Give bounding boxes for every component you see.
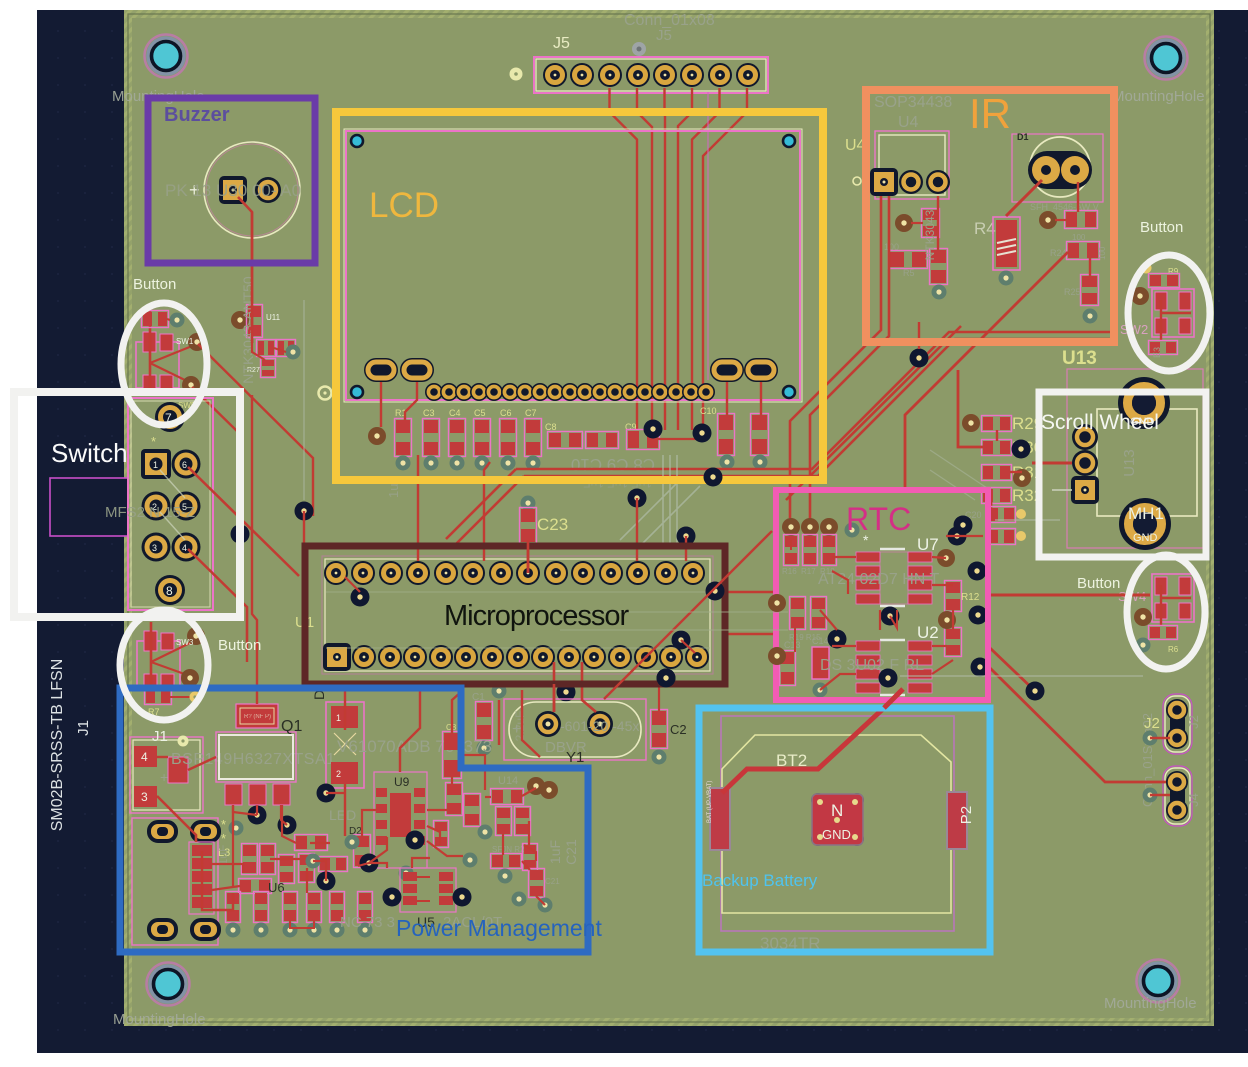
pad U1 top pin 6 <box>461 561 485 585</box>
wire mid connects <box>270 858 300 860</box>
capacitor bottom row x=337 <box>330 892 345 923</box>
wire U4 pin3 down <box>937 196 939 250</box>
via in micro left <box>351 588 370 607</box>
wires power management <box>251 212 253 343</box>
via on micro right border <box>706 582 725 601</box>
svg-text:SW1: SW1 <box>176 337 194 346</box>
oval pad <box>192 822 219 841</box>
svg-text:Power Management: Power Management <box>396 915 602 941</box>
svg-text:2: 2 <box>336 769 341 779</box>
pad MH2 <box>1118 377 1170 429</box>
hatch lines switch <box>160 470 185 540</box>
svg-text:C6: C6 <box>500 408 512 418</box>
svg-text:J5: J5 <box>656 27 672 44</box>
svg-text:R12: R12 <box>961 592 980 603</box>
wire over micro border (crystal) <box>553 684 556 712</box>
pad brown on RTC border b <box>768 647 786 665</box>
wire U11 down <box>252 343 265 360</box>
vias U5 <box>383 888 402 907</box>
svg-text:LCD: LCD <box>369 186 439 225</box>
vias below micro <box>492 684 507 699</box>
svg-text:IR: IR <box>969 90 1011 137</box>
pad J2 pin2 <box>1166 727 1188 749</box>
svg-text:J5: J5 <box>553 35 570 52</box>
svg-text:DS 3U02 F RL: DS 3U02 F RL <box>820 657 924 674</box>
pad teal RTC <box>845 523 860 538</box>
pad switch pin 2 <box>142 492 171 521</box>
svg-text:C2: C2 <box>670 722 687 737</box>
wire C8p up <box>452 692 461 733</box>
wire 304-511 links <box>303 511 305 543</box>
via C2 <box>652 750 667 765</box>
resistor R31 <box>982 465 1012 481</box>
pad U1 top pin 4 <box>406 561 430 585</box>
pad brown under U4 <box>895 214 913 232</box>
pad U4 pin3 <box>926 170 950 194</box>
IC U9 <box>374 772 427 868</box>
wire U9 right to parts <box>427 841 463 856</box>
pad U1 bottom pin 5 <box>429 645 453 669</box>
switch SW1 outline <box>136 342 179 388</box>
svg-text:N: N <box>831 801 843 820</box>
resistor R6 <box>1149 626 1178 640</box>
connector J5 outline <box>536 59 766 91</box>
pad J4 pin2 <box>1166 799 1188 821</box>
pad U4 pin2 <box>899 170 923 194</box>
pad U1 bottom pin 6 <box>454 645 478 669</box>
svg-text:J4: J4 <box>1186 793 1201 807</box>
resistor R30 <box>982 440 1012 456</box>
via black near C10 <box>644 420 663 439</box>
wire (magenta net line) <box>707 92 709 380</box>
annotation Buzzer box <box>148 98 315 263</box>
wire IR diag bundle 1 <box>516 332 1114 469</box>
svg-text:4: 4 <box>141 750 148 764</box>
mounting hole MH3 top-left <box>145 35 188 78</box>
wire switch pin6 diagonal <box>188 467 299 576</box>
svg-text:U9: U9 <box>394 775 410 789</box>
svg-text:C4: C4 <box>449 408 461 418</box>
microprocessor U1 inner outline <box>322 556 713 674</box>
svg-text:Button: Button <box>1077 575 1120 592</box>
wire brown-R11 <box>1055 219 1066 221</box>
pale inner traces <box>620 455 700 546</box>
via below C6 <box>501 456 516 471</box>
svg-text:C5: C5 <box>474 408 486 418</box>
capacitor C19 <box>987 529 1016 545</box>
svg-text:NTK3043-ANT50: NTK3043-ANT50 <box>240 276 256 384</box>
pad Y1 pin1 <box>535 711 561 737</box>
pad brown right <box>1039 211 1057 229</box>
via teal under R4 <box>999 271 1014 286</box>
svg-text:U2: U2 <box>917 623 939 642</box>
wire oval right2 down <box>760 382 762 415</box>
svg-text:V61070ADB 767373: V61070ADB 767373 <box>337 737 492 756</box>
wire RTC to J4 via <box>990 648 1035 691</box>
wire Q1 leg right down <box>282 805 296 843</box>
pad brown on RTC border a <box>768 594 786 612</box>
vias black RTC <box>954 516 973 535</box>
svg-text:J1: J1 <box>75 720 92 736</box>
wire R32 vertical <box>990 502 993 518</box>
pad LCD pin 4 <box>470 383 488 401</box>
capacitor bottom row x=233 <box>226 892 241 923</box>
pad switch pin 7 <box>155 402 185 432</box>
svg-text:C23: C23 <box>537 515 568 534</box>
svg-text:U7: U7 <box>917 535 939 554</box>
wire J5 breakout <box>703 88 747 430</box>
wire via up <box>918 322 920 349</box>
via right mid <box>672 631 691 650</box>
wire Q1 legs <box>233 805 257 815</box>
pad J5 pin 7 <box>708 63 732 87</box>
resistor R8 <box>1149 341 1178 355</box>
wire bottom row link <box>290 921 314 928</box>
svg-text:R9: R9 <box>1168 267 1179 276</box>
resistor cluster right of U9 <box>446 783 463 816</box>
inductor L3 <box>189 842 214 914</box>
wires RTC internal <box>790 540 792 550</box>
oval pad LCD right2 <box>744 358 778 382</box>
pad LCD pin 3 <box>455 383 473 401</box>
svg-text:8: 8 <box>166 584 173 598</box>
wire R29-R30 <box>996 430 998 441</box>
pad LCD pin 9 <box>546 383 564 401</box>
svg-text:100: 100 <box>1072 233 1086 242</box>
svg-text:1uF: 1uF <box>216 845 230 866</box>
wire IR diag bundle 3 <box>786 326 961 500</box>
pad brown SW1 a <box>188 333 206 351</box>
pad switch pin 3 <box>142 533 171 562</box>
annotation Scroll Wheel box <box>1039 392 1206 557</box>
pad P2 <box>947 792 967 849</box>
via teal under right column 1 <box>720 455 735 470</box>
svg-text:R25: R25 <box>1064 287 1081 297</box>
pad J5 pin 2 <box>570 63 594 87</box>
pads brown RTC right <box>937 549 955 567</box>
LCD corner hole <box>351 135 363 147</box>
svg-text:E3: E3 <box>1152 347 1162 358</box>
wire J5 breakout <box>610 88 638 430</box>
oval pad LCD left2 <box>400 358 434 382</box>
IC U2 <box>856 640 932 695</box>
wire J5 breakout <box>663 88 666 430</box>
svg-text:R16: R16 <box>782 567 797 576</box>
pad LCD pin 11 <box>576 383 594 401</box>
pad LCD pin 15 <box>636 383 654 401</box>
svg-text:U13: U13 <box>1121 449 1138 477</box>
wire J5 breakout <box>692 88 720 430</box>
LCD corner hole <box>783 386 795 398</box>
pad U1 top pin 10 <box>571 561 595 585</box>
svg-text:R6: R6 <box>1168 645 1179 654</box>
pad U1 top pin 8 <box>516 561 540 585</box>
wires micro to RTC <box>723 591 776 593</box>
pad U4 pin1 (square) <box>870 168 898 196</box>
pad U1 top pin 9 <box>544 561 568 585</box>
crystal Y1 outline <box>504 699 646 760</box>
svg-text:C3: C3 <box>423 408 435 418</box>
oval pad <box>149 822 176 841</box>
pad MH1 <box>1119 498 1171 550</box>
annotation LCD box <box>336 112 823 480</box>
via black left C20 <box>948 527 967 546</box>
svg-text:2.2uF: 2.2uF <box>513 711 527 742</box>
resistors R16 R17 R18 <box>784 535 799 566</box>
pad U1 top pin 1 <box>324 561 348 585</box>
via teal under right column 2 <box>753 455 768 470</box>
wire via 637 down <box>636 498 638 561</box>
pad J5 pin 3 <box>598 63 622 87</box>
svg-text:U13: U13 <box>1062 348 1097 369</box>
IC U10 <box>464 794 481 827</box>
wire U14 right drop <box>528 821 530 845</box>
capacitor C21 <box>529 869 545 898</box>
pad brown SW3 b <box>181 669 199 687</box>
wire U11 to via <box>274 348 286 352</box>
capacitor C23 <box>521 496 536 511</box>
svg-text:MountingHole: MountingHole <box>113 1011 206 1028</box>
resistor R29 <box>982 416 1012 432</box>
pad P1 <box>710 788 730 850</box>
svg-text:U11: U11 <box>266 313 281 322</box>
svg-text:Button: Button <box>133 276 176 293</box>
battery center pad BT2 <box>811 793 864 846</box>
wire cluster link <box>310 842 330 844</box>
svg-text:PK 13 U30 00- A0: PK 13 U30 00- A0 <box>165 181 301 200</box>
IR receiver U4 outline <box>875 131 949 199</box>
wire RTC to SW4 <box>990 594 1150 597</box>
pad U1 top pin 3 <box>379 561 403 585</box>
pale inner traces micro <box>326 592 710 648</box>
pads D1 <box>1028 151 1092 189</box>
svg-text:GND: GND <box>822 827 851 842</box>
resistor R12 <box>945 581 962 612</box>
via teal J2 <box>1143 731 1158 746</box>
pad LCD pin 2 <box>440 383 458 401</box>
svg-text:Button: Button <box>218 637 261 654</box>
wire R31 right to scroll <box>1010 471 1022 473</box>
wire power vertical left <box>232 806 234 886</box>
via below C7 <box>526 456 541 471</box>
wire pad2-via <box>345 577 360 592</box>
svg-text:*: * <box>151 434 156 449</box>
battery trace over RTC border <box>884 689 903 708</box>
wire via 686 down <box>685 536 687 561</box>
wire long from U9 up <box>400 690 420 772</box>
pad U1 bottom pin 3 <box>378 645 402 669</box>
wire SW1 bus <box>149 304 152 388</box>
via below R1 <box>396 456 411 471</box>
svg-text:Button: Button <box>1140 219 1183 236</box>
pad U1 bottom pin 10 <box>557 645 581 669</box>
pad LCD pin 10 <box>561 383 579 401</box>
fiducial pad near J5 <box>632 42 646 56</box>
pale wire U13 pin3 <box>1052 489 1072 491</box>
resistor R7 <box>145 690 172 705</box>
scroll wheel inner courtyard <box>1097 409 1197 516</box>
wire U4 pin1 down long <box>790 196 881 518</box>
svg-text:DBVR: DBVR <box>545 739 587 756</box>
svg-text:SW3: SW3 <box>176 638 194 647</box>
svg-text:C8: C8 <box>545 422 557 432</box>
annotation Button ellipse SW1 <box>121 303 207 425</box>
svg-text:C21: C21 <box>545 877 560 886</box>
pad J5 pin 1 <box>543 63 567 87</box>
pad U1 top pin 13 <box>654 561 678 585</box>
wire oval right1 down <box>726 382 728 415</box>
wire oval left2 down <box>405 382 417 420</box>
svg-text:1: 1 <box>336 713 341 723</box>
via on LCD border <box>704 468 723 487</box>
pad J5 pin 6 <box>680 63 704 87</box>
annotation IR box <box>866 90 1114 342</box>
via teal under R26 <box>932 285 947 300</box>
svg-text:MH1: MH1 <box>1128 504 1164 523</box>
pad U1 bottom pin 2 <box>352 645 376 669</box>
switch SW4 <box>1152 574 1194 622</box>
pad brown SW3 a <box>187 627 205 645</box>
svg-text:BAT (UP-VBAT): BAT (UP-VBAT) <box>707 781 713 823</box>
wire U9 left to D2 <box>362 810 376 836</box>
via black R30 <box>1012 440 1031 459</box>
annotation Microprocessor box <box>305 546 725 684</box>
mounting hole MH4 top-right <box>1145 37 1188 80</box>
battery BT2 courtyard khaki <box>722 735 951 913</box>
pad U1 bottom pin 9 <box>531 645 555 669</box>
svg-text:+: + <box>160 769 168 785</box>
via teal SW4 <box>1136 638 1151 653</box>
wire SW1 diagonal to LCD area <box>198 344 313 516</box>
svg-text:1: 1 <box>153 460 158 470</box>
svg-text:J1: J1 <box>152 728 168 745</box>
via over micro border <box>657 669 676 688</box>
battery BT2 courtyard pink <box>721 716 954 931</box>
svg-text:Buzzer: Buzzer <box>164 104 230 126</box>
center cluster parts <box>295 835 328 851</box>
pad khaki R7 <box>190 692 201 703</box>
scroll wheel U13 outline <box>1067 369 1203 548</box>
svg-text:C13: C13 <box>784 640 801 650</box>
pad brown SW4 <box>1134 608 1152 626</box>
oval pads battery holder <box>132 818 218 945</box>
svg-text:D1: D1 <box>1017 132 1029 142</box>
svg-text:6: 6 <box>182 460 187 470</box>
pad LCD pin 7 <box>516 383 534 401</box>
svg-text:C10: C10 <box>700 406 717 416</box>
wire long diagonal through micro corner <box>604 531 772 699</box>
wire mid vertical <box>306 868 308 893</box>
svg-text:Scroll Wheel: Scroll Wheel <box>1041 411 1159 434</box>
wire brown-R23 <box>911 222 923 224</box>
svg-text:R? (NF P): R? (NF P) <box>244 714 271 720</box>
LCD corner hole <box>783 135 795 147</box>
pad LCD pin 12 <box>591 383 609 401</box>
wire RTC to J4 <box>990 668 1166 782</box>
resistors R19 R15 <box>790 597 806 630</box>
diode D3 <box>326 702 364 788</box>
wire via-pad <box>681 640 695 653</box>
resistor right column 2 <box>751 414 769 456</box>
wire SW1 diagonal 2 <box>192 387 240 470</box>
pad LCD pin 14 <box>621 383 639 401</box>
switch SW3 outline <box>137 641 180 687</box>
annotation Switch box <box>14 392 240 617</box>
pads SW1 <box>143 332 156 352</box>
svg-text:U4: U4 <box>898 114 919 131</box>
annotation Button ellipse SW2 <box>1128 255 1210 371</box>
pad LCD pin 18 <box>682 383 700 401</box>
resistor right column 1 <box>718 414 735 456</box>
pad J4 pin1 <box>1166 771 1188 793</box>
pad LCD pin 6 <box>501 383 519 401</box>
svg-text:3: 3 <box>141 790 148 804</box>
RTC brown pads top <box>782 518 800 536</box>
pad U1 bottom pin 13 <box>634 645 658 669</box>
capacitor C27 <box>277 340 296 357</box>
component U11 <box>231 311 249 329</box>
pad U1 bottom pin 1 (square) <box>323 643 351 671</box>
wire buzzer net down to Q1 <box>252 395 257 704</box>
via teal under R25 <box>1083 309 1098 324</box>
pad switch pin 5 <box>172 492 201 521</box>
annotation Button ellipse SW3 <box>120 610 208 720</box>
annotation RTC box <box>776 490 988 700</box>
via brown right <box>540 781 558 799</box>
pad LCD pin 17 <box>667 383 685 401</box>
resistor R11 <box>1065 211 1098 229</box>
mounting hole MH5 bottom-left <box>147 963 190 1006</box>
pad U1 bottom pin 11 <box>582 645 606 669</box>
svg-text:SM02B-SRSS-TB LFSN: SM02B-SRSS-TB LFSN <box>49 659 66 831</box>
pad U1 top pin 7 <box>489 561 513 585</box>
wire R7 <box>170 696 190 698</box>
wire C21 drop <box>536 896 545 905</box>
wire C23 down to U1 <box>527 540 530 573</box>
svg-text:R5: R5 <box>903 268 915 278</box>
pad LCD pin 13 <box>606 383 624 401</box>
wire R24 diagonal long <box>905 252 1068 490</box>
fiducial left of U4 <box>853 177 861 185</box>
capacitor C26 <box>257 340 276 357</box>
wire R24 down to R25 <box>1089 258 1091 276</box>
svg-text:Switch: Switch <box>51 438 128 468</box>
via teal right of U11 <box>286 345 301 360</box>
wire buzzer down <box>238 197 252 343</box>
pad U1 bottom pin 15 <box>685 645 709 669</box>
wire L3 bus <box>202 851 233 910</box>
svg-text:SFJN R22: SFJN R22 <box>492 845 529 854</box>
wire D3 down <box>344 784 346 836</box>
via black mid right <box>910 349 929 368</box>
resistor R25 <box>1081 275 1099 306</box>
connector J4 <box>1165 768 1190 824</box>
pad J5 pin 8 <box>736 63 760 87</box>
svg-text:LED: LED <box>329 807 356 823</box>
via teal SW1 <box>170 313 185 328</box>
svg-text:NC 73 3: NC 73 3 <box>340 914 395 931</box>
wire Y1 pads up <box>553 662 556 712</box>
capacitor C2 <box>651 710 668 749</box>
buzzer BZ1 circle <box>204 142 300 238</box>
connector J2 <box>1165 696 1190 752</box>
oval pad LCD right1 <box>710 358 744 382</box>
wire J5 breakout <box>678 88 692 430</box>
wire battery thick <box>722 691 901 793</box>
annotation Button ellipse SW4 <box>1127 555 1205 669</box>
switch footprint outline <box>128 398 213 610</box>
wire J5 breakout <box>637 88 652 430</box>
